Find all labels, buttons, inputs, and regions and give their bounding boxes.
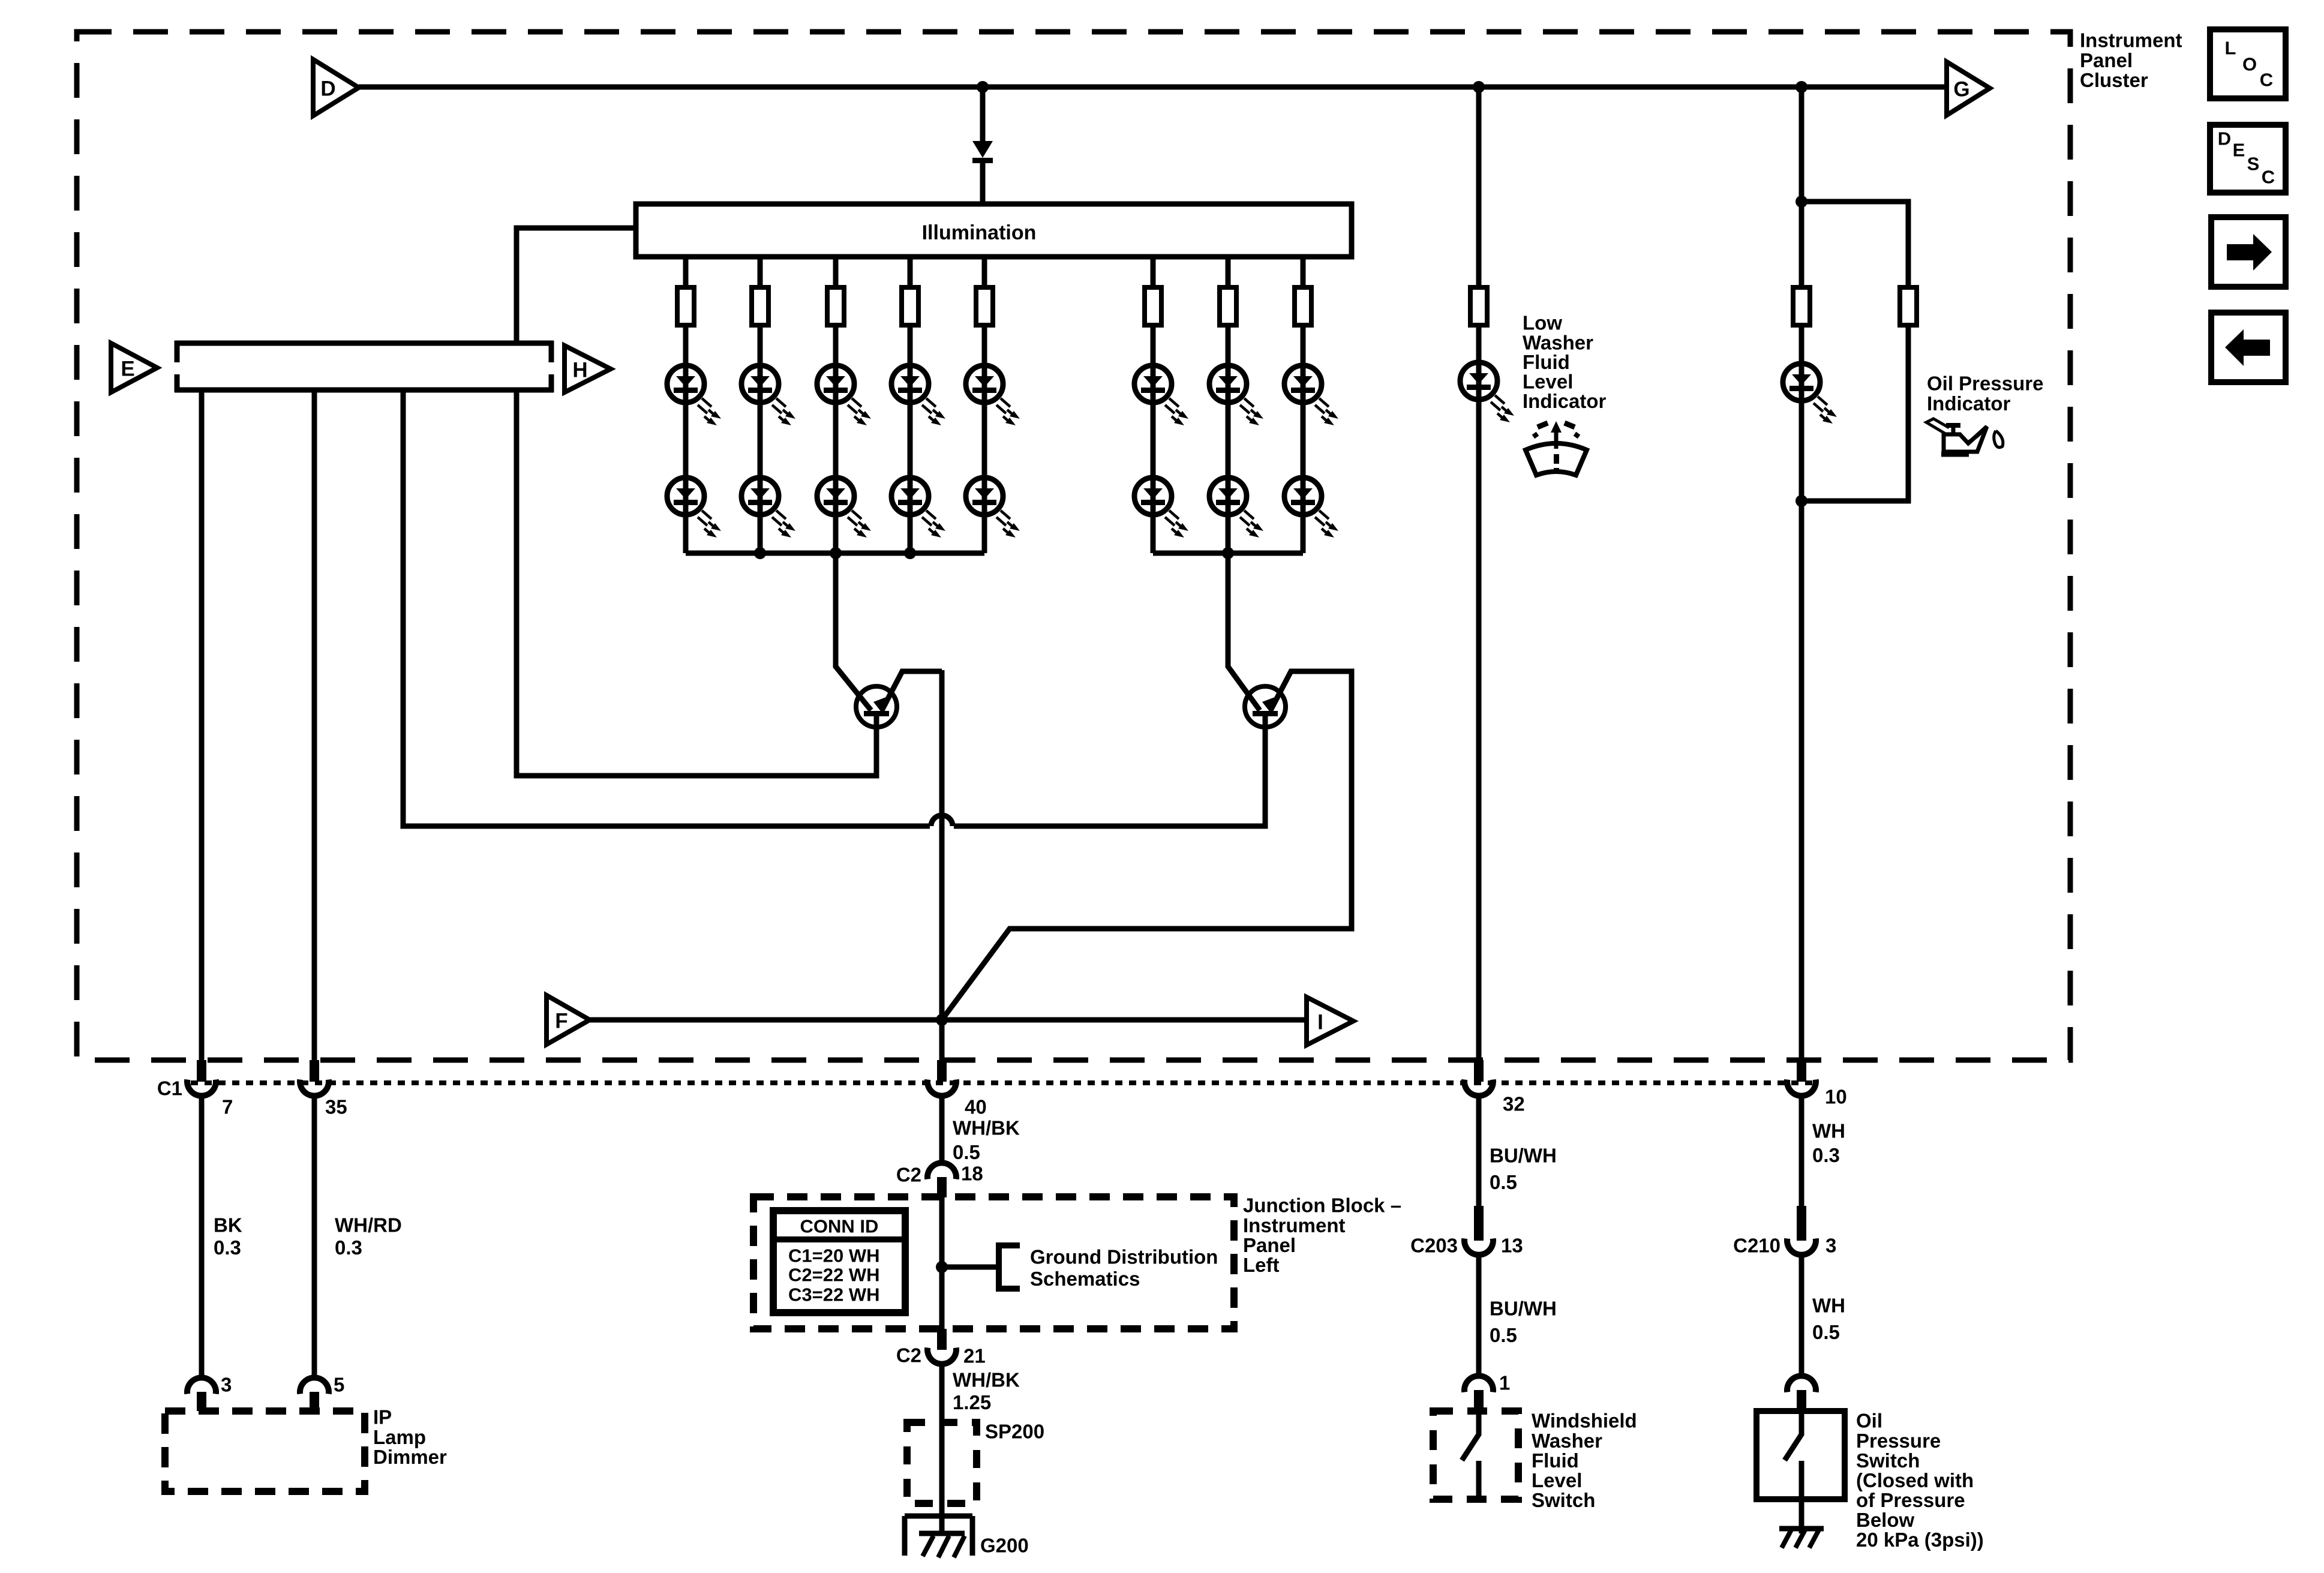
connector C210 pin 3: [1733, 1206, 1836, 1257]
wire: washer indicator branch: [1476, 87, 1482, 1060]
LED D9 Low Washer Fluid Level Indicator lamp: [1460, 362, 1514, 422]
wire: F to I: [590, 1017, 1307, 1023]
wire: C2-21 to ground, WH/BK 1.25: [939, 1364, 945, 1533]
ground distribution reference bracket: [942, 1245, 1218, 1290]
Junction Block - Instrument Panel Left box: [753, 1197, 1234, 1329]
svg-text:SP200: SP200: [985, 1421, 1044, 1443]
connector pin 40 at cluster boundary: [927, 1060, 987, 1118]
LED D10 Oil Pressure Indicator lamp: [1783, 364, 1837, 424]
resistor R5: [976, 287, 993, 325]
node: oil branch top junction: [1795, 196, 1807, 208]
node: junction dot washer branch: [1473, 81, 1485, 93]
connector triangle F: [547, 995, 590, 1044]
resistor R2: [752, 287, 768, 325]
node: ground distribution tap: [936, 1261, 948, 1273]
switch blade (oil pressure switch): [1785, 1411, 1801, 1499]
LED D2b: [741, 478, 795, 538]
LED D6a: [1134, 365, 1188, 425]
wire: oil pressure indicator branch: [1799, 87, 1804, 1060]
connector C2 pin 18: [896, 1163, 983, 1198]
svg-text:10: 10: [1825, 1086, 1847, 1108]
connector pin 32 at cluster boundary: [1464, 1060, 1525, 1115]
node: junction dot at diode tap: [977, 81, 989, 93]
resistor R7: [1220, 287, 1236, 325]
wire: C210 to oil switch, WH 0.5: [1799, 1255, 1804, 1376]
svg-text:S: S: [2247, 154, 2260, 175]
connector triangle G: [1947, 62, 1990, 115]
Windshield Washer Fluid Level Switch box: [1433, 1411, 1518, 1499]
wire: pin 40 to C2-18, WH/BK 0.5: [939, 1096, 945, 1163]
svg-text:G200: G200: [980, 1535, 1029, 1557]
resistor R4: [902, 287, 918, 325]
svg-text:O: O: [2242, 54, 2257, 75]
svg-text:C3=22 WH: C3=22 WH: [788, 1284, 879, 1305]
IP Lamp Dimmer box: [165, 1406, 447, 1492]
svg-text:13: 13: [1501, 1235, 1523, 1257]
icon: oil can symbol: [1926, 419, 2003, 454]
connector pin 3 at IP lamp dimmer: [187, 1374, 232, 1412]
svg-text:Illumination: Illumination: [922, 221, 1037, 244]
connector pin 1 at washer switch: [1464, 1372, 1510, 1412]
wire: right LED group bus: [1153, 551, 1303, 556]
connector C203 pin 13: [1410, 1206, 1523, 1257]
svg-text:3: 3: [1825, 1235, 1836, 1257]
legend box LOC: [2210, 29, 2286, 98]
svg-text:18: 18: [961, 1163, 983, 1185]
svg-text:C: C: [2262, 167, 2275, 188]
svg-text:C210: C210: [1733, 1235, 1780, 1257]
connector pin 35 at cluster boundary: [300, 1060, 347, 1118]
switch blade (washer fluid level switch): [1462, 1411, 1479, 1499]
svg-text:C2=22 WH: C2=22 WH: [788, 1265, 879, 1286]
Illumination lamp driver box: [636, 204, 1352, 257]
resistor R11 (parallel branch): [1900, 287, 1917, 325]
wire: bar to left transistor base: [517, 390, 876, 776]
wire: Q1 collector down to connector pin 40: [939, 670, 945, 1060]
bus bar (dimmer signal bar) between E and H: [175, 341, 554, 392]
LED D3b: [817, 478, 871, 538]
Oil Pressure Switch box: [1756, 1411, 1845, 1499]
legend box DESC: [2210, 125, 2286, 193]
connector triangle I: [1307, 997, 1353, 1045]
LED D3a: [817, 365, 871, 425]
svg-text:H: H: [572, 359, 587, 382]
svg-text:1: 1: [1499, 1372, 1510, 1394]
svg-text:L: L: [2225, 38, 2236, 59]
wire: C1-7 to IP lamp dimmer pin 3: [199, 1096, 205, 1377]
wire: C1-35 to IP lamp dimmer pin 5: [312, 1096, 317, 1377]
svg-text:D: D: [320, 77, 335, 101]
resistor R10 (oil indicator): [1793, 287, 1810, 325]
node: junction dot oil branch: [1795, 81, 1807, 93]
LED D4b: [891, 478, 945, 538]
svg-text:D: D: [2218, 128, 2231, 149]
LED D5b: [966, 478, 1020, 538]
resistor R3: [827, 287, 844, 325]
LED D1a: [667, 365, 721, 425]
connector strip dotted line: [191, 1080, 1818, 1085]
svg-text:G: G: [1953, 78, 1969, 101]
wire: bar to right transistor base (hops over centre wire): [403, 390, 1265, 826]
svg-text:21: 21: [963, 1345, 986, 1367]
connector pin 10 at cluster boundary: [1787, 1060, 1847, 1108]
svg-text:7: 7: [222, 1096, 233, 1118]
resistor R6: [1145, 287, 1161, 325]
LED D2a: [741, 365, 795, 425]
legend box left-arrow: [2211, 313, 2286, 382]
svg-text:35: 35: [325, 1096, 347, 1118]
wire: illumination LED column 2: [758, 257, 763, 553]
wire: illumination LED column 8: [1301, 257, 1306, 553]
connector arc at oil pressure switch: [1787, 1376, 1816, 1411]
diode CR1 feeding Illumination: [972, 87, 993, 204]
node: bus dots left group: [754, 547, 916, 559]
svg-text:E: E: [2233, 140, 2245, 161]
wire: dimmer bus bar to Illumination box: [517, 228, 636, 343]
wire: illumination LED column 6: [1151, 257, 1156, 553]
wire: illumination LED column 4: [908, 257, 913, 553]
svg-text:E: E: [121, 358, 134, 381]
connector triangle H: [565, 346, 611, 392]
svg-text:3: 3: [221, 1374, 232, 1396]
icon: windshield washer symbol: [1526, 421, 1587, 475]
legend box right-arrow: [2211, 217, 2286, 287]
node: junction dot on F-I wire: [936, 1014, 948, 1026]
svg-text:C1=20 WH: C1=20 WH: [788, 1245, 879, 1266]
svg-text:5: 5: [334, 1374, 344, 1396]
node: bus dot right group: [1222, 547, 1234, 559]
svg-text:40: 40: [965, 1096, 987, 1118]
resistor R1: [677, 287, 694, 325]
LED D4a: [891, 365, 945, 425]
wire: through junction block: [939, 1197, 945, 1329]
resistor R8: [1295, 287, 1311, 325]
connector triangle D: [313, 59, 359, 116]
wire: bar to connector C1 pin 35: [312, 390, 317, 1060]
CONN ID table: [773, 1211, 905, 1313]
svg-text:F: F: [555, 1010, 568, 1033]
LED D8a: [1284, 365, 1338, 425]
connector triangle E: [111, 343, 157, 392]
svg-text:C2: C2: [896, 1164, 921, 1186]
wire: left LED group bus: [686, 551, 984, 556]
node: oil branch bottom junction: [1795, 495, 1807, 507]
svg-text:C: C: [2260, 70, 2273, 91]
wire: top supply rail from D to G: [359, 85, 1947, 90]
LED D6b: [1134, 478, 1188, 538]
wire: bar to connector C1 pin 7: [199, 390, 205, 1060]
connector pin 5 at IP lamp dimmer: [300, 1374, 344, 1412]
transistor Q2 (right LED driver): [942, 553, 1352, 1020]
svg-text:CONN ID: CONN ID: [800, 1216, 879, 1237]
svg-text:C1: C1: [157, 1077, 182, 1100]
svg-text:C203: C203: [1410, 1235, 1458, 1257]
svg-text:BK0.3: BK0.3: [214, 1214, 242, 1259]
svg-text:C2: C2: [896, 1344, 921, 1367]
LED D7a: [1209, 365, 1263, 425]
wire: pin 10 to C210, WH 0.3: [1799, 1096, 1804, 1206]
LED D7b: [1209, 478, 1263, 538]
wire: illumination LED column 3: [833, 257, 839, 553]
svg-text:32: 32: [1503, 1093, 1525, 1115]
ground G200: [905, 1516, 972, 1557]
LED D1b: [667, 478, 721, 538]
LED D5a: [966, 365, 1020, 425]
svg-text:I: I: [1317, 1011, 1323, 1034]
resistor R9 (washer indicator): [1470, 287, 1487, 325]
wire: illumination LED column 5: [982, 257, 987, 553]
wire: illumination LED column 7: [1226, 257, 1231, 553]
LED D8b: [1284, 478, 1338, 538]
Instrument Panel Cluster dashed boundary box: [77, 32, 2070, 1060]
wire: C203 to washer switch, BU/WH 0.5: [1476, 1255, 1482, 1376]
wire: illumination LED column 1: [683, 257, 689, 553]
connector pin 7 at cluster boundary: [187, 1060, 233, 1118]
transistor Q1 (left LED driver): [836, 553, 942, 776]
splice SP200 box: [907, 1421, 1044, 1504]
connector C2 pin 21: [896, 1329, 986, 1367]
wire: oil switch to ground: [1799, 1499, 1804, 1533]
wire: pin 32 to C203, BU/WH 0.5: [1476, 1096, 1482, 1206]
ground (engine block) under oil switch: [1779, 1529, 1824, 1548]
wire: oil indicator parallel resistor branch: [1801, 202, 1908, 501]
